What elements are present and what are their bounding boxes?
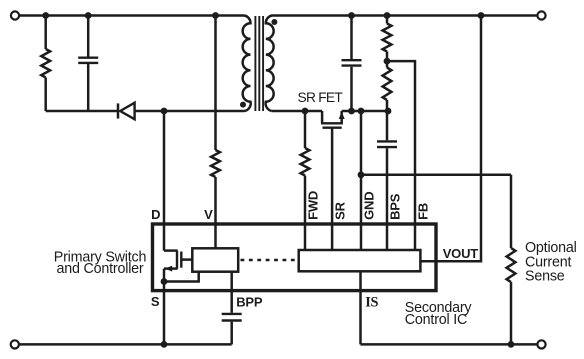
wire: gate to controller block	[181, 258, 192, 261]
svg-text:D: D	[151, 207, 160, 222]
svg-text:Sense: Sense	[525, 269, 565, 285]
IC package outline	[153, 224, 437, 291]
output terminal (top right)	[537, 11, 545, 19]
node: current sense resistor on return rail	[508, 341, 515, 348]
wire: GND pin	[360, 111, 363, 250]
node: GND pin tap	[358, 108, 365, 115]
transformer T1 primary winding	[243, 16, 251, 112]
wire: S pin down	[163, 282, 166, 345]
optional current sense resistor	[507, 248, 516, 282]
svg-text:SR FET: SR FET	[298, 90, 344, 105]
node: output cap tap	[348, 12, 355, 19]
svg-text:V: V	[204, 207, 213, 222]
svg-text:and Controller: and Controller	[56, 261, 143, 277]
wire: output rail (secondary top)	[272, 14, 538, 17]
SR FET gate bar	[323, 126, 342, 128]
feedback divider upper resistor	[386, 16, 389, 24]
FWD pin resistor	[304, 111, 307, 148]
node: S pin on return rail	[161, 341, 168, 348]
output return terminal (bottom right)	[537, 340, 545, 348]
primary FET gate bar	[180, 252, 182, 268]
svg-text:FWD: FWD	[305, 191, 320, 220]
transformer secondary polarity dot	[271, 19, 277, 25]
primary switch MOSFET	[164, 249, 178, 252]
feedback divider lower resistor	[383, 68, 392, 101]
clamp diode (cathode left)	[117, 103, 120, 118]
svg-text:BPS: BPS	[387, 193, 402, 220]
transformer primary polarity dot	[240, 102, 246, 108]
wire: BPS pin	[386, 148, 389, 250]
wire: secondary ground rail	[342, 110, 388, 113]
bias resistor on V line	[214, 16, 217, 151]
wire: VOUT sense line	[420, 16, 481, 262]
coupling link (dashed)	[241, 259, 298, 262]
output capacitor	[350, 16, 353, 60]
node: current sense branch	[358, 171, 365, 178]
wire: divider midpoint to FB pin	[387, 61, 415, 250]
node: source junction	[161, 278, 168, 285]
svg-text:IS: IS	[365, 295, 378, 311]
wire: secondary return rail	[361, 343, 538, 346]
BPP capacitor	[222, 313, 242, 315]
svg-text:GND: GND	[361, 192, 376, 220]
transformer T1 secondary winding	[266, 16, 274, 112]
node: clamp capacitor tap on input rail	[85, 12, 92, 19]
node: FWD tap	[302, 108, 309, 115]
wire: ground to optional current sense resistor	[361, 174, 511, 177]
primary controller block	[192, 248, 238, 271]
wire: primary return rail	[19, 343, 232, 346]
node: clamp resistor tap on input rail	[42, 12, 49, 19]
clamp capacitor	[87, 16, 90, 57]
node: divider midpoint	[384, 58, 391, 65]
wire: secondary bottom / switching node	[272, 110, 322, 113]
svg-text:S: S	[151, 294, 160, 309]
SR FET (synchronous rectifier MOSFET)	[321, 111, 324, 123]
node: output cap bottom	[348, 108, 355, 115]
wire: clamp bottom rail	[46, 110, 117, 113]
svg-text:BPP: BPP	[236, 295, 263, 310]
secondary controller block	[299, 250, 421, 271]
input terminal (top left)	[11, 11, 19, 19]
svg-text:Control IC: Control IC	[405, 312, 467, 328]
wire: IS pin	[359, 271, 362, 344]
svg-text:VOUT: VOUT	[443, 246, 479, 261]
wire: SR gate to SR pin	[331, 128, 334, 250]
wire: source sense to controller	[164, 272, 199, 282]
clamp resistor	[44, 16, 47, 50]
wire: BPP pin	[230, 272, 233, 313]
node: feedback divider tap	[384, 12, 391, 19]
svg-text:FB: FB	[415, 203, 430, 220]
svg-text:SR: SR	[332, 201, 347, 219]
node: drain tap junction	[161, 108, 168, 115]
transformer core	[254, 16, 256, 111]
primary return terminal (bottom left)	[11, 340, 19, 348]
wire: top input rail	[20, 14, 245, 17]
wire: diode anode to primary winding bottom / drain node	[135, 110, 245, 113]
node: VOUT sense tap	[478, 12, 485, 19]
node: divider bottom / BPS cap top	[385, 108, 392, 115]
wire: drain node down to D pin	[163, 111, 166, 251]
BPS capacitor	[386, 111, 389, 140]
node: bias (V pin) tap on input rail	[212, 12, 219, 19]
